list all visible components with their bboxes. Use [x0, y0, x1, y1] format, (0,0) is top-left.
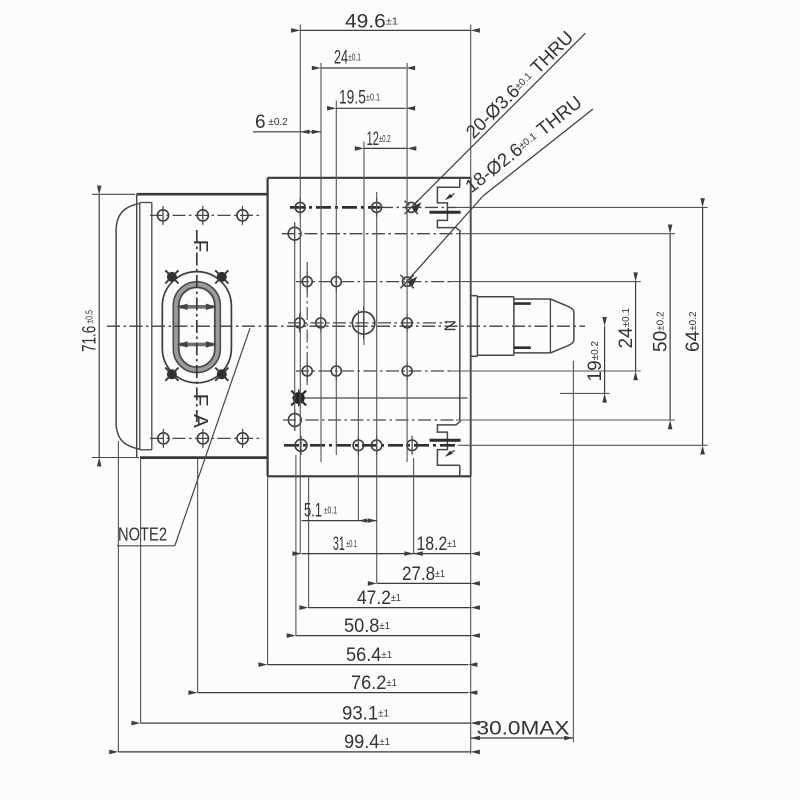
- antenna weld ticks: [514, 304, 531, 348]
- dimension 27.8: [368, 564, 480, 586]
- NOTE2 label and leader: [117, 328, 250, 546]
- cooling clip bottom: [437, 421, 461, 466]
- flange mounting hole bottom 3: [237, 429, 248, 448]
- hole row 3 centerline: [296, 281, 450, 283]
- right ext lines: [450, 207, 708, 445]
- dimension 93.1: [131, 703, 479, 725]
- flange mounting hole top 2: [197, 206, 208, 225]
- row7 hole: [288, 410, 301, 431]
- dimension 12: [355, 129, 417, 151]
- row1 hole a: [295, 198, 305, 217]
- weld spot 4: [215, 368, 228, 381]
- dimension 50.8: [287, 616, 480, 638]
- window rib lower: [177, 341, 217, 347]
- flange mounting hole bottom 1: [158, 429, 169, 448]
- column x295: [295, 222, 296, 636]
- svg-text:F: F: [189, 240, 212, 253]
- row 6 line: [292, 397, 468, 399]
- window rib upper: [177, 304, 217, 310]
- flange bottom hole row centerline: [150, 437, 259, 439]
- svg-text:NOTE2: NOTE2: [118, 524, 167, 545]
- mid large hole: [352, 307, 374, 340]
- dimension 24 top: [312, 48, 415, 71]
- column x358: [357, 310, 359, 521]
- dimension 19: [585, 317, 607, 403]
- flange mounting hole top 3: [237, 206, 248, 225]
- column x377: [376, 192, 378, 583]
- svg-text:N: N: [441, 320, 458, 332]
- cooling clip top: [437, 187, 461, 231]
- svg-text:F: F: [189, 394, 212, 407]
- leader 18-dia2.6 THRU: [403, 91, 593, 286]
- extension x118: [117, 441, 119, 752]
- clip top weld arrow: [445, 193, 455, 200]
- extension x197: [197, 459, 199, 693]
- dimension 24 vertical: [616, 272, 638, 380]
- antenna mid section: [514, 299, 551, 353]
- extension x413: [413, 458, 415, 554]
- column x336: [335, 101, 337, 456]
- mid hole d: [402, 313, 412, 332]
- extension column x300: [299, 25, 301, 554]
- row8 hole b: [353, 436, 364, 455]
- column x364: [363, 142, 365, 346]
- column x407: [406, 63, 408, 462]
- flange left tab: [116, 203, 140, 449]
- main horizontal centerline: [107, 325, 585, 327]
- flange plate outline: [137, 194, 268, 457]
- dimension 31: [292, 534, 422, 556]
- row8 hole d: [407, 436, 418, 455]
- clip bottom weld arrow: [445, 450, 455, 457]
- row3 hole c (leader target): [400, 275, 413, 288]
- mid hole b: [316, 313, 326, 332]
- dimension 30.0MAX: [471, 718, 574, 740]
- leader 20-dia3.6 THRU: [406, 27, 586, 213]
- svg-text:30.0MAX: 30.0MAX: [477, 718, 570, 739]
- dimension 18.2: [404, 534, 480, 556]
- dimension 6: [253, 112, 321, 134]
- row1 hole c (leader target): [404, 201, 417, 214]
- dimension 49.6: [291, 12, 480, 33]
- row5 hole b: [331, 362, 341, 381]
- weld spot 3: [165, 368, 178, 381]
- weld spot 1: [165, 270, 178, 283]
- hole row 7 centerline: [283, 419, 456, 421]
- row8 hole a: [295, 436, 307, 455]
- hole row 8 centerline: [284, 444, 458, 447]
- row3 hole a: [302, 272, 312, 291]
- row8 hole c: [371, 436, 382, 455]
- label FA: [189, 394, 212, 428]
- hole row 2 centerline: [282, 233, 456, 235]
- hole row 5 centerline: [296, 370, 450, 372]
- row5 hole a: [302, 362, 312, 381]
- mid hole a: [295, 313, 305, 332]
- dimension 5.1: [302, 500, 377, 523]
- row3 hole b: [331, 272, 341, 291]
- extension x470 full height: [470, 25, 472, 754]
- middle hole row centerline: [288, 322, 447, 324]
- antenna barrel: [477, 297, 514, 356]
- flange bent-edge strip: [140, 203, 152, 450]
- dimension 64: [683, 198, 705, 454]
- dimension 76.2: [188, 673, 477, 695]
- flange top hole row centerline: [150, 214, 259, 216]
- row2 hole: [288, 223, 301, 244]
- clip top contact bar: [430, 211, 461, 214]
- dimension 47.2: [299, 588, 480, 610]
- svg-text:A: A: [189, 414, 212, 428]
- flange mounting hole bottom 2: [197, 429, 208, 448]
- waveguide window gasket band: [173, 282, 220, 373]
- antenna dome: [550, 299, 574, 353]
- hole row 1 centerline: [290, 206, 456, 209]
- extension x140: [140, 458, 142, 723]
- flange mounting hole top 1: [157, 206, 168, 225]
- dimension 71.6: [80, 186, 140, 467]
- row5 hole c: [402, 362, 412, 381]
- filled terminal hole: [291, 390, 306, 407]
- antenna base: [471, 296, 478, 357]
- dimension 99.4: [109, 732, 480, 754]
- body inner right edge: [459, 178, 461, 477]
- row1 hole b: [372, 198, 382, 217]
- column x307: [307, 262, 308, 608]
- dimension 50: [651, 225, 673, 430]
- dimension 19.5: [327, 88, 415, 111]
- clip bottom contact bar: [430, 439, 461, 442]
- column x321: [320, 63, 322, 462]
- weld spot 2: [215, 270, 228, 283]
- extension from antenna tip: [572, 361, 574, 742]
- flange vertical centerline: [196, 230, 198, 422]
- magnetron body outline: [268, 178, 471, 477]
- extension from body left edge: [267, 476, 269, 664]
- dimension 56.4: [258, 645, 477, 667]
- waveguide window outer obround: [162, 272, 231, 383]
